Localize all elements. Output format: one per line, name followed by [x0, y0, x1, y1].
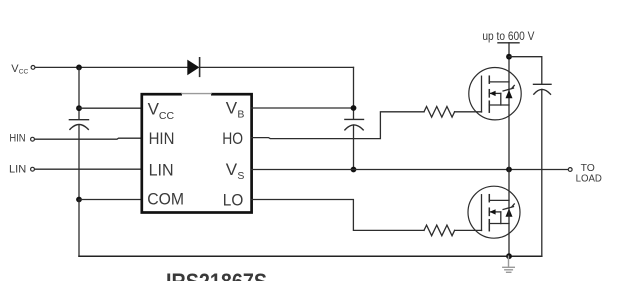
svg-text:V: V	[148, 99, 160, 118]
svg-text:HO: HO	[222, 129, 243, 148]
label TO LOAD	[576, 163, 602, 184]
wire COM pin	[79, 199, 142, 201]
svg-text:HIN: HIN	[149, 129, 175, 148]
wire HIN	[35, 138, 142, 139]
svg-text:LOAD: LOAD	[576, 173, 602, 184]
terminal LIN	[31, 167, 35, 171]
capacitor C1	[69, 120, 88, 130]
wire C3 bottom	[541, 89, 543, 256]
wire Vcc drop to C1	[78, 67, 80, 119]
capacitor C3	[534, 84, 552, 94]
svg-text:CC: CC	[159, 110, 175, 122]
wire R2 to gate Q2	[455, 229, 482, 231]
wire HV drop through Q1 to switch node	[508, 43, 510, 170]
wire left drop to bottom rail	[78, 200, 80, 257]
junction dot Vcc pin	[76, 105, 82, 111]
wire to VCC pin	[79, 107, 142, 109]
terminal HIN	[31, 137, 35, 141]
wire bottom rail	[79, 255, 542, 257]
ground	[503, 256, 515, 272]
svg-text:S: S	[237, 170, 244, 182]
junction dot VB	[351, 105, 357, 111]
svg-text:HIN: HIN	[9, 133, 25, 145]
pin label VB	[226, 99, 245, 121]
wire HV rail bar	[498, 42, 519, 44]
svg-text:IRS21867S: IRS21867S	[166, 269, 267, 281]
resistor R1	[424, 107, 455, 118]
wire LO to gate resistor	[252, 200, 424, 231]
junction dot C2-Vs	[351, 167, 357, 173]
transistor Q1	[469, 68, 521, 120]
wire Vcc rail right	[200, 66, 354, 68]
wire HO to gate resistor	[252, 112, 424, 139]
diode D1	[187, 58, 199, 77]
wire switch node to bottom rail	[508, 170, 510, 257]
wire R1 to gate Q1	[455, 111, 482, 113]
svg-text:B: B	[237, 109, 244, 121]
wire LIN	[35, 168, 142, 170]
capacitor C2 bootstrap	[345, 119, 364, 129]
svg-text:CC: CC	[19, 69, 29, 76]
svg-text:LIN: LIN	[9, 164, 26, 176]
junction dot Vcc rail	[76, 65, 82, 71]
junction dot Vs-switch node	[506, 167, 512, 173]
transistor Q2	[468, 186, 520, 238]
svg-text:up to 600 V: up to 600 V	[482, 30, 534, 43]
svg-text:LIN: LIN	[149, 160, 174, 179]
wire C2 bottom	[353, 125, 355, 170]
wire below C1	[78, 125, 80, 200]
wire VB pin to bootstrap node	[252, 107, 354, 109]
svg-text:TO: TO	[581, 163, 595, 174]
terminal TO LOAD	[568, 168, 572, 172]
terminal Vcc	[31, 66, 35, 70]
svg-text:V: V	[226, 99, 238, 118]
junction dot bottom	[506, 253, 512, 259]
wire bootstrap drop from rail	[353, 67, 355, 119]
pin label VS	[226, 160, 245, 182]
label Vcc	[11, 63, 28, 76]
junction dot COM	[76, 197, 82, 203]
wire to C3	[509, 57, 542, 84]
svg-text:V: V	[226, 160, 238, 179]
wire Vs	[252, 169, 568, 171]
junction dot HV	[506, 54, 512, 60]
svg-text:LO: LO	[223, 190, 244, 209]
op-amp U1 IC body	[142, 92, 252, 213]
resistor R2	[424, 225, 455, 236]
wire Vcc rail left	[36, 66, 188, 68]
svg-text:COM: COM	[147, 189, 184, 208]
pin label VCC	[148, 99, 175, 122]
